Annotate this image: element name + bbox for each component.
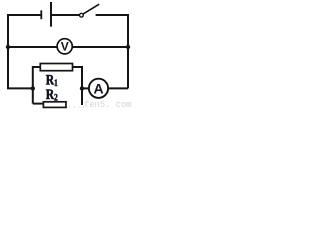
svg-text:V: V	[61, 40, 69, 54]
svg-text:A: A	[93, 80, 103, 96]
svg-text:R2: R2	[46, 86, 58, 103]
